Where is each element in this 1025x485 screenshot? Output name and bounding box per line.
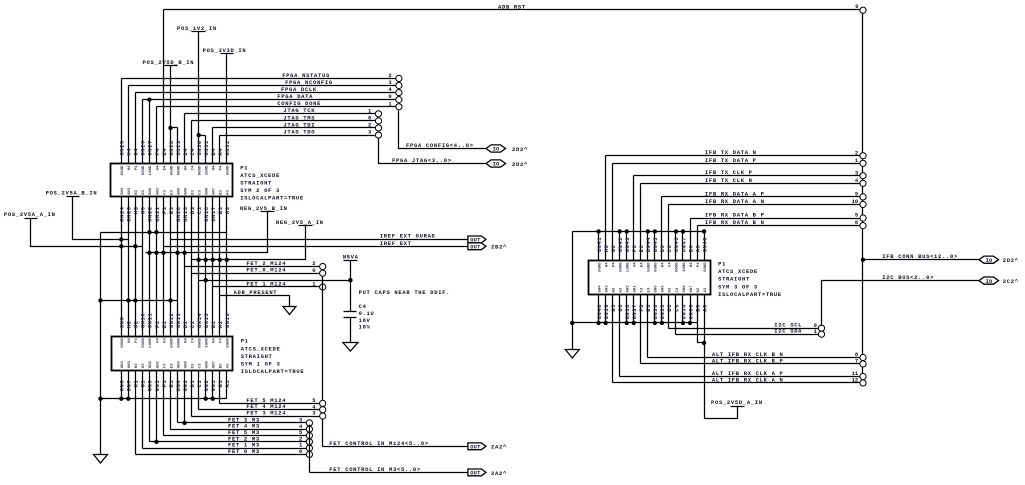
svg-text:GN6: GN6: [147, 380, 154, 392]
svg-text:E4: E4: [161, 148, 168, 156]
svg-text:D3: D3: [669, 287, 673, 292]
svg-text:D4: D4: [184, 338, 188, 343]
svg-text:C5: C5: [673, 304, 680, 312]
svg-text:IO: IO: [493, 147, 500, 153]
svg-text:P1: P1: [241, 338, 249, 345]
svg-text:P1: P1: [240, 164, 248, 171]
svg-text:G4: G4: [133, 148, 140, 156]
node ALT IFB RX CLK A P bubble: [860, 373, 866, 379]
wire IFB RX DATA B N: [698, 219, 860, 260]
node IFB TX CLK N bubble: [860, 180, 866, 186]
node FET 2 M3 bubble: [306, 439, 312, 445]
svg-text:10: 10: [852, 198, 859, 205]
svg-text:FPGA NSTATUS: FPGA NSTATUS: [282, 72, 330, 79]
svg-text:A3: A3: [227, 363, 231, 368]
svg-text:GN20: GN20: [175, 206, 182, 221]
node JTAG TCK pin bubble: [375, 111, 381, 117]
svg-text:IFB TX CLK N: IFB TX CLK N: [705, 177, 753, 184]
svg-text:D3: D3: [191, 189, 195, 194]
svg-text:C3: C3: [198, 363, 202, 368]
svg-text:2D2^: 2D2^: [512, 161, 528, 168]
ground left rail: [94, 455, 108, 464]
svg-text:9: 9: [855, 191, 858, 198]
svg-text:JTAG TDI: JTAG TDI: [283, 121, 315, 128]
ground SYM3 rail: [565, 350, 579, 359]
svg-text:FET 0 M3: FET 0 M3: [228, 448, 260, 455]
svg-text:D3: D3: [191, 363, 195, 368]
svg-text:H3: H3: [612, 287, 616, 292]
svg-text:GN0: GN0: [177, 360, 181, 368]
wire JTAG TCK: [185, 107, 376, 163]
svg-text:6: 6: [855, 219, 858, 226]
svg-text:7: 7: [855, 358, 858, 365]
svg-text:GN1: GN1: [156, 187, 160, 195]
wire FET 0 M3: [136, 371, 307, 456]
svg-text:GN8: GN8: [683, 285, 687, 293]
svg-text:H3: H3: [135, 189, 139, 194]
svg-text:2: 2: [388, 72, 391, 79]
svg-text:GN11: GN11: [147, 313, 154, 329]
svg-text:B3: B3: [697, 287, 701, 292]
junction FET 2 M3 / GN5: [154, 371, 158, 444]
svg-text:GN46: GN46: [673, 237, 680, 252]
svg-text:B4: B4: [210, 148, 217, 156]
svg-text:5GND: 5GND: [227, 338, 231, 348]
node FPGA NSTATUS pin bubble: [396, 75, 402, 81]
svg-text:GN40: GN40: [596, 304, 603, 319]
node JTAG TDI pin bubble: [375, 125, 381, 131]
wire IFB TX CLK N: [641, 177, 860, 261]
svg-text:IFB RX DATA A N: IFB RX DATA A N: [705, 198, 765, 205]
svg-text:ISLOCALPART=TRUE: ISLOCALPART=TRUE: [240, 195, 304, 202]
svg-text:5GND: 5GND: [121, 338, 125, 348]
svg-text:H3: H3: [133, 206, 140, 214]
svg-text:P4: P4: [220, 165, 224, 170]
junction FPGA DATA / GN27: [147, 97, 151, 163]
wire FPGA DCLK: [136, 86, 396, 164]
svg-text:ISLOCALPART=TRUE: ISLOCALPART=TRUE: [718, 291, 782, 298]
svg-text:GN9: GN9: [662, 285, 666, 293]
svg-text:FPGA CONFIG<4..0>: FPGA CONFIG<4..0>: [406, 142, 474, 149]
node FET 5 M3 bubble: [306, 432, 312, 438]
wire IFB TX DATA N: [606, 149, 860, 260]
svg-text:IREF EXT GURAD: IREF EXT GURAD: [380, 233, 436, 240]
svg-text:6GND: 6GND: [655, 262, 659, 272]
node ALT IFB RX CLK B N bubble: [860, 354, 866, 360]
node I2C SCL bubble: [818, 325, 824, 331]
svg-text:5GND: 5GND: [170, 165, 174, 175]
svg-text:GN1: GN1: [210, 380, 217, 392]
node FET 1 M124 bubble: [320, 284, 326, 290]
svg-text:IFB TX DATA N: IFB TX DATA N: [705, 149, 757, 156]
node FPGA DCLK pin bubble: [396, 89, 402, 95]
svg-text:GN38: GN38: [624, 304, 631, 320]
svg-text:E1: E1: [168, 380, 175, 388]
svg-text:H4: H4: [126, 148, 133, 156]
svg-text:H1: H1: [133, 380, 140, 388]
svg-text:GN4: GN4: [121, 360, 125, 368]
wire IFB RX DATA A N: [669, 198, 860, 261]
svg-text:STRAIGHT: STRAIGHT: [241, 353, 273, 360]
svg-text:IREF EXT: IREF EXT: [380, 240, 412, 247]
svg-text:P4: P4: [220, 338, 224, 343]
rail SYM1 bottom ground row: [98, 371, 226, 401]
wire FET 2 M3: [150, 371, 307, 443]
svg-text:FPGA DATA: FPGA DATA: [277, 93, 313, 100]
svg-text:2D2^: 2D2^: [1003, 257, 1019, 264]
node FET 3 M124 bubble: [320, 413, 326, 419]
svg-text:C4: C4: [191, 338, 195, 343]
svg-text:A3: A3: [224, 206, 231, 214]
svg-text:1GND: 1GND: [205, 338, 209, 348]
P1 SYM1 ref text: [241, 338, 305, 375]
ground C4: [343, 343, 358, 352]
svg-text:LGND: LGND: [627, 262, 631, 272]
svg-text:GN42: GN42: [617, 237, 624, 252]
bus FPGA JTAG<3..0>: [379, 138, 487, 165]
connector P1 SYM1: [112, 337, 233, 371]
svg-text:JTAG TCK: JTAG TCK: [283, 107, 315, 114]
svg-text:POS_2V5D_A_IN: POS_2V5D_A_IN: [711, 399, 763, 406]
svg-text:GN22: GN22: [147, 206, 154, 221]
svg-text:ATCS_XCEDE: ATCS_XCEDE: [240, 172, 280, 179]
wire main bus vertical right: [862, 14, 864, 387]
svg-text:GN43: GN43: [624, 237, 631, 253]
svg-text:IFB RX DATA A P: IFB RX DATA A P: [705, 190, 765, 197]
svg-text:FET_0_M124: FET_0_M124: [246, 267, 286, 274]
wire IFB RX DATA B P: [691, 212, 860, 261]
svg-text:GN13: GN13: [175, 313, 182, 329]
svg-text:GN2: GN2: [203, 380, 210, 392]
junction IFB CONN BUS tap: [861, 258, 865, 262]
svg-text:E4: E4: [641, 262, 645, 267]
svg-text:H4: H4: [213, 165, 217, 170]
svg-text:E2: E2: [161, 320, 168, 328]
svg-text:D1: D1: [189, 380, 196, 388]
svg-text:GN1: GN1: [156, 360, 160, 368]
svg-text:C3: C3: [196, 206, 203, 214]
node IFB RX DATA A P bubble: [860, 194, 866, 200]
svg-text:5GND: 5GND: [170, 338, 174, 348]
power POS_1V2_IN: [177, 25, 217, 164]
svg-text:2: 2: [368, 122, 371, 129]
connector P1 SYM3: [589, 261, 711, 295]
svg-text:GN17: GN17: [210, 206, 217, 221]
wire IFB TX CLK P: [634, 169, 860, 260]
svg-text:GN9: GN9: [119, 317, 126, 329]
svg-text:F2: F2: [154, 320, 161, 328]
svg-text:F4: F4: [154, 148, 161, 156]
svg-text:GN31: GN31: [203, 140, 210, 156]
power NEG_2V5_A_IN rail: [192, 219, 324, 262]
svg-text:CONFIG DONE: CONFIG DONE: [277, 100, 321, 107]
svg-text:GN36: GN36: [652, 304, 659, 319]
node JTAG TDO pin bubble: [375, 132, 381, 138]
node IFB RX DATA B N bubble: [860, 223, 866, 229]
svg-text:GN3: GN3: [182, 380, 189, 392]
svg-text:C4: C4: [191, 165, 195, 170]
svg-text:POS_2V5A_A_IN: POS_2V5A_A_IN: [4, 211, 56, 218]
svg-text:GN2: GN2: [149, 360, 153, 368]
svg-text:G5: G5: [617, 304, 624, 312]
svg-text:D6: D6: [659, 245, 666, 253]
svg-text:C4: C4: [359, 303, 367, 310]
svg-text:A4: A4: [156, 165, 160, 170]
svg-text:GN32: GN32: [224, 140, 231, 155]
svg-text:SYM 2 OF 3: SYM 2 OF 3: [240, 187, 280, 194]
svg-text:G3: G3: [140, 206, 147, 214]
svg-text:SYM 1 OF 3: SYM 1 OF 3: [241, 360, 281, 367]
wire ALT IFB RX CLK A P: [620, 295, 860, 378]
wire FET 5 M3: [164, 371, 307, 437]
node FET 5 M124 bubble: [320, 400, 326, 406]
svg-text:OUT: OUT: [470, 445, 481, 451]
svg-text:6GND: 6GND: [177, 165, 181, 175]
svg-text:ADB_PRESENT: ADB_PRESENT: [234, 289, 278, 296]
svg-text:5GND: 5GND: [142, 165, 146, 175]
power POS_2V5D_A_IN: [698, 295, 763, 419]
svg-text:PUT CAPS NEAR THE DDIF.: PUT CAPS NEAR THE DDIF.: [359, 289, 451, 296]
node ALT_IFB_RX_CLK_B_P bubble: [860, 361, 866, 367]
svg-text:C6: C6: [666, 245, 673, 253]
wire CONFIG DONE: [157, 100, 396, 163]
wire FET_2_M124: [185, 260, 320, 267]
svg-text:GN23: GN23: [126, 206, 133, 222]
svg-text:0: 0: [855, 3, 858, 10]
svg-text:A6: A6: [694, 245, 701, 253]
bus IFB CONN BUS<12..0>: [863, 253, 979, 260]
svg-text:IFB TX CLK P: IFB TX CLK P: [705, 169, 753, 176]
node FPGA NCONFIG pin bubble: [396, 82, 402, 88]
svg-text:GN0: GN0: [177, 187, 181, 195]
rail SYM3 top ground row: [573, 229, 707, 349]
svg-text:E3: E3: [168, 206, 175, 214]
node IFB TX CLK P bubble: [860, 173, 866, 179]
svg-text:E3: E3: [170, 189, 174, 194]
svg-text:H4: H4: [605, 262, 609, 267]
svg-text:GN39: GN39: [603, 304, 610, 319]
svg-text:5GND: 5GND: [704, 262, 708, 272]
svg-text:OGND: OGND: [198, 338, 202, 348]
svg-text:5GND: 5GND: [648, 262, 652, 272]
P1 SYM2 ref text: [240, 164, 304, 201]
wire FET 4 M3: [171, 371, 307, 430]
wire IFB RX DATA A P: [662, 190, 860, 260]
svg-text:N5VA: N5VA: [343, 254, 359, 261]
wire ADB_RST top: [164, 3, 860, 163]
svg-text:B3: B3: [220, 363, 224, 368]
svg-text:P4: P4: [135, 165, 139, 170]
note PUT CAPS: [359, 289, 451, 296]
svg-text:H2: H2: [126, 320, 133, 328]
svg-text:GN37: GN37: [631, 304, 638, 319]
svg-text:JTAG TDO: JTAG TDO: [283, 128, 315, 135]
svg-text:C2: C2: [189, 320, 196, 328]
svg-text:GN7: GN7: [690, 285, 694, 293]
wire FPGA NSTATUS: [122, 72, 396, 164]
svg-text:GN12: GN12: [168, 313, 175, 328]
svg-text:2D2^: 2D2^: [512, 146, 528, 153]
svg-text:F3: F3: [641, 287, 645, 292]
svg-text:E6: E6: [638, 245, 645, 253]
svg-text:E3: E3: [648, 287, 652, 292]
svg-text:FPGA JTAG<3..0>: FPGA JTAG<3..0>: [392, 157, 452, 164]
ground ADB_PRESENT: [283, 307, 296, 315]
svg-text:GN41: GN41: [596, 237, 603, 253]
wire FET 1 M124: [213, 281, 320, 288]
svg-text:OGND: OGND: [198, 165, 202, 175]
svg-text:B1: B1: [217, 380, 224, 388]
svg-text:E3: E3: [170, 363, 174, 368]
svg-text:IO: IO: [986, 258, 993, 264]
svg-text:C4: C4: [189, 148, 196, 156]
connector P1 SYM2: [111, 164, 233, 197]
svg-text:P4: P4: [135, 338, 139, 343]
svg-text:A4: A4: [217, 148, 224, 156]
wire I2C SCL: [669, 295, 819, 329]
wires SYM2 bottom to SYM1 top pin bundle: [122, 197, 227, 337]
svg-text:GN26: GN26: [140, 140, 147, 155]
svg-text:GN48: GN48: [701, 237, 708, 253]
svg-text:IO: IO: [986, 279, 993, 285]
wire ALT IFB RX CLK B N: [648, 295, 860, 359]
svg-text:GN3: GN3: [605, 285, 609, 293]
wire IREF EXT: [164, 240, 468, 247]
svg-text:D4: D4: [182, 148, 189, 156]
svg-text:G3: G3: [142, 189, 146, 194]
svg-text:NEG_2V5_B_IN: NEG_2V5_B_IN: [240, 205, 288, 212]
wire FET 5 M124: [220, 371, 320, 405]
svg-text:G1: G1: [140, 380, 147, 388]
wire FET 3 M124: [192, 371, 320, 417]
svg-text:GN16: GN16: [224, 313, 231, 328]
port IO FPGA JTAG: [486, 160, 528, 168]
port IO I2C BUS: [979, 277, 1019, 285]
power N5VA: [343, 254, 359, 312]
svg-text:GN3: GN3: [128, 360, 132, 368]
svg-text:H4: H4: [690, 262, 694, 267]
svg-text:G3: G3: [142, 363, 146, 368]
svg-text:IFB RX DATA B N: IFB RX DATA B N: [705, 219, 765, 226]
svg-text:F1: F1: [161, 380, 168, 388]
svg-text:ALT_IFB_RX_CLK_B_P: ALT_IFB_RX_CLK_B_P: [712, 357, 784, 364]
P1 SYM3 top pin labels: [596, 237, 708, 253]
P1 SYM1 inner pin names: [121, 338, 230, 369]
svg-text:1GND: 1GND: [205, 165, 209, 175]
power POS_2V5A_A_IN: [4, 211, 143, 248]
svg-text:GN0: GN0: [655, 285, 659, 293]
P1 SYM2 inner pin names: [121, 165, 230, 195]
svg-text:2C2^: 2C2^: [1003, 278, 1019, 285]
svg-text:5GND: 5GND: [142, 338, 146, 348]
node ADB_RST pin bubble: [860, 7, 866, 13]
svg-text:ADB RST: ADB RST: [498, 3, 526, 10]
junction FET 3 M3 / GN3: [182, 371, 186, 426]
svg-text:GN2: GN2: [627, 285, 631, 293]
node IFB TX DATA N bubble: [860, 153, 866, 159]
rail ground row y232: [101, 230, 227, 455]
svg-text:STRAIGHT: STRAIGHT: [718, 276, 750, 283]
svg-text:A4: A4: [156, 338, 160, 343]
svg-text:A1: A1: [224, 380, 231, 388]
svg-text:G3: G3: [619, 287, 623, 292]
svg-text:GN47: GN47: [680, 237, 687, 252]
port IO FPGA CONFIG: [486, 145, 528, 153]
svg-text:POS_2V5A_B_IN: POS_2V5A_B_IN: [46, 190, 98, 197]
power POS_2V5A_B_IN: [46, 190, 129, 242]
svg-text:GN10: GN10: [140, 313, 147, 328]
P1 SYM2 bottom pin labels: [119, 206, 231, 222]
capacitor C4: [344, 303, 375, 343]
svg-text:GN28: GN28: [168, 140, 175, 156]
node CONFIG DONE pin bubble: [396, 104, 402, 110]
svg-text:F6: F6: [631, 245, 638, 253]
P1 SYM2 top pin labels: [119, 140, 231, 156]
wire FET 3 M3: [178, 371, 307, 424]
svg-text:H4: H4: [213, 338, 217, 343]
svg-text:GN44: GN44: [645, 237, 652, 253]
svg-text:GN8: GN8: [205, 187, 209, 195]
svg-text:C3: C3: [198, 189, 202, 194]
svg-text:H3: H3: [135, 363, 139, 368]
svg-text:6GND: 6GND: [177, 338, 181, 348]
svg-text:LGND: LGND: [149, 165, 153, 175]
svg-text:GN25: GN25: [119, 140, 126, 156]
svg-text:C4: C4: [669, 262, 673, 267]
svg-text:D2: D2: [182, 320, 189, 328]
svg-text:0: 0: [368, 114, 371, 121]
svg-text:E4: E4: [163, 338, 167, 343]
svg-text:GN19: GN19: [182, 206, 189, 221]
svg-text:IFB TX DATA P: IFB TX DATA P: [705, 157, 757, 164]
svg-text:A3: A3: [227, 189, 231, 194]
node FET 0 M3 bubble: [306, 451, 312, 457]
bus FET CONTROL IN M3<5..0>: [310, 466, 468, 473]
wire JTAG TMS: [192, 114, 376, 163]
svg-text:H5: H5: [610, 304, 617, 312]
svg-text:GN7: GN7: [213, 360, 217, 368]
node FPGA DATA pin bubble: [396, 97, 402, 103]
svg-text:GN45: GN45: [652, 237, 659, 253]
svg-text:B2: B2: [210, 320, 217, 328]
svg-text:P4: P4: [697, 262, 701, 267]
svg-text:H4: H4: [128, 338, 132, 343]
wire FET 1 M3: [143, 371, 307, 449]
node I2C SDA bubble: [818, 331, 824, 337]
wire FET 4 M124: [199, 371, 320, 411]
power NEG_2V5_B_IN rail: [146, 205, 288, 255]
svg-text:B3: B3: [220, 189, 224, 194]
svg-text:P4: P4: [612, 262, 616, 267]
svg-text:H6: H6: [603, 245, 610, 253]
svg-text:2A2^: 2A2^: [491, 444, 507, 451]
wire IFB TX DATA P: [613, 157, 860, 261]
svg-text:I2C SDA: I2C SDA: [774, 328, 802, 335]
svg-text:10%: 10%: [359, 323, 371, 330]
svg-text:NEG_2V5_A_IN: NEG_2V5_A_IN: [276, 219, 324, 226]
svg-text:GN7: GN7: [213, 187, 217, 195]
rail SYM1 top ground row: [98, 298, 177, 302]
svg-text:GN21: GN21: [154, 206, 161, 222]
node IFB RX DATA B P bubble: [860, 215, 866, 221]
svg-text:1GND: 1GND: [683, 262, 687, 272]
svg-text:GN27: GN27: [147, 140, 154, 155]
port OUT FET CONTROL M124: [468, 443, 507, 451]
wire ALT_IFB_RX_CLK_B_P: [641, 295, 860, 365]
svg-text:C3: C3: [676, 287, 680, 292]
svg-text:ATCS_XCEDE: ATCS_XCEDE: [718, 268, 758, 275]
svg-text:GN4: GN4: [175, 380, 182, 392]
